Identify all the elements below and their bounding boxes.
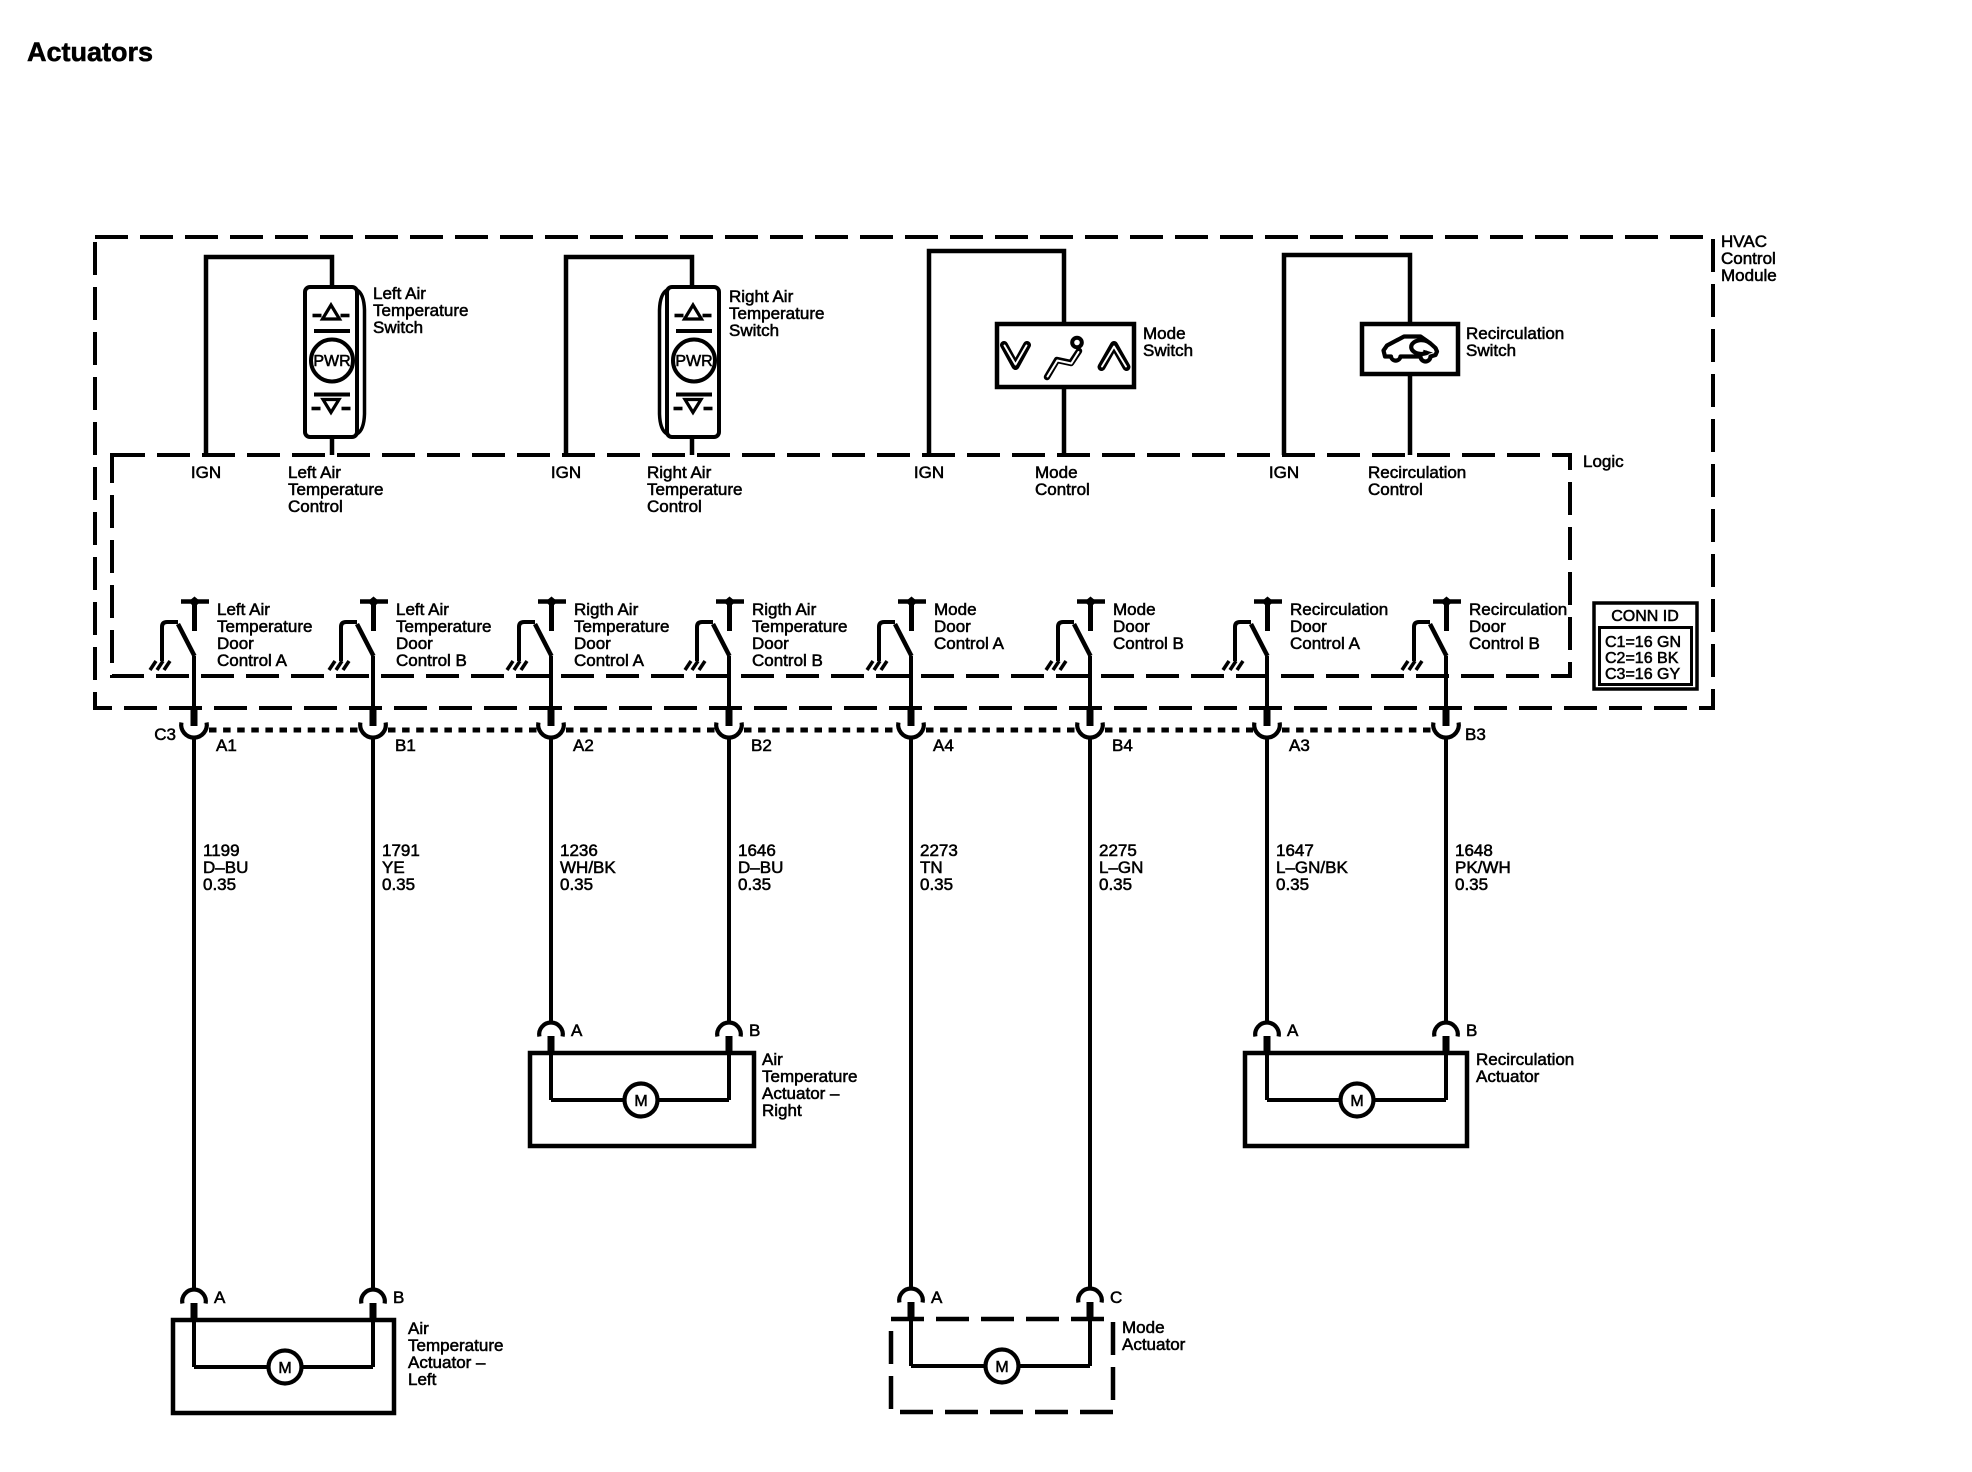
switch S2 Right Air Temperature Switch body <box>660 287 720 437</box>
svg-text:A: A <box>214 1288 226 1307</box>
connector bump pin A of Air Temperature Actuator Left <box>182 1290 206 1320</box>
ground for Q8 <box>1402 661 1422 670</box>
switch S1 Left Air Temperature Switch PWR button <box>311 340 353 382</box>
svg-text:A: A <box>931 1288 943 1307</box>
svg-text:Control: Control <box>1035 480 1090 499</box>
wire segment 1646 D–BU <box>727 738 731 1022</box>
driver Q3 Rigth Air Control A <box>519 597 566 662</box>
svg-text:A1: A1 <box>216 736 237 755</box>
S3 icon chevron down <box>1004 345 1027 366</box>
Air Temperature Actuator Left box <box>173 1320 394 1413</box>
svg-text:A4: A4 <box>933 736 954 755</box>
svg-text:A3: A3 <box>1289 736 1310 755</box>
wire segment 2273 TN <box>909 738 913 1288</box>
svg-text:0.35: 0.35 <box>203 875 236 894</box>
svg-text:Control A: Control A <box>934 634 1005 653</box>
svg-text:B2: B2 <box>751 736 772 755</box>
driver Q4 Rigth Air Control B <box>697 597 744 662</box>
svg-text:0.35: 0.35 <box>382 875 415 894</box>
wire inside Air Temperature Actuator Left pin B <box>371 1320 375 1367</box>
wire segment 1236 WH/BK <box>549 738 553 1022</box>
svg-text:IGN: IGN <box>1269 463 1299 482</box>
wire S4 output pigtail <box>1408 374 1413 455</box>
connector pin A1 cup <box>181 723 207 738</box>
svg-text:PWR: PWR <box>675 353 712 370</box>
wire IGN feed to Right Air Temperature Switch <box>566 257 692 455</box>
wire inside Recirculation Actuator pin B <box>1444 1053 1448 1100</box>
svg-text:Control A: Control A <box>574 651 645 670</box>
connector bump pin A of Mode Actuator <box>899 1289 923 1319</box>
svg-text:M: M <box>995 1359 1008 1376</box>
wire S3 output pigtail <box>1062 387 1067 455</box>
S3 icon seated person <box>1047 338 1082 377</box>
svg-text:A: A <box>571 1021 583 1040</box>
svg-text:0.35: 0.35 <box>1455 875 1488 894</box>
svg-text:Control B: Control B <box>1469 634 1540 653</box>
svg-text:Control B: Control B <box>396 651 467 670</box>
svg-text:A2: A2 <box>573 736 594 755</box>
svg-text:Actuator: Actuator <box>1122 1335 1186 1354</box>
Logic block <box>112 455 1570 676</box>
wire Q4 output down to connector <box>727 656 731 726</box>
svg-text:Control B: Control B <box>752 651 823 670</box>
wire inside Recirculation Actuator pin A <box>1265 1053 1269 1100</box>
svg-text:0.35: 0.35 <box>1276 875 1309 894</box>
wire Q5 output down to connector <box>909 656 913 726</box>
svg-text:0.35: 0.35 <box>560 875 593 894</box>
CONN ID table <box>1594 603 1697 689</box>
wire inside Air Temperature Actuator Left pin A <box>192 1320 196 1367</box>
wire motor link in Mode Actuator <box>911 1364 1090 1368</box>
motor M of Recirculation Actuator <box>1341 1084 1374 1117</box>
svg-text:Left: Left <box>408 1370 437 1389</box>
svg-text:B: B <box>393 1288 404 1307</box>
ground for Q3 <box>507 661 527 670</box>
svg-text:A: A <box>1287 1021 1299 1040</box>
svg-text:B3: B3 <box>1465 725 1486 744</box>
ground for Q6 <box>1046 661 1066 670</box>
switch S2 Right Air Temperature Switch up arrow <box>675 305 713 331</box>
wire Q8 output down to connector <box>1444 656 1448 726</box>
connector pin B1 cup <box>360 723 386 738</box>
driver Q6 Mode Control B <box>1058 597 1105 662</box>
svg-text:PWR: PWR <box>313 353 350 370</box>
svg-text:Module: Module <box>1721 266 1777 285</box>
wire Q7 output down to connector <box>1265 656 1269 726</box>
connector pin B4 cup <box>1077 723 1103 738</box>
svg-text:IGN: IGN <box>551 463 581 482</box>
driver Q8 Recirculation Control B <box>1414 597 1461 662</box>
svg-text:Actuators: Actuators <box>27 37 153 67</box>
svg-text:C: C <box>1110 1288 1122 1307</box>
switch S1 Left Air Temperature Switch body <box>305 287 365 437</box>
connector bump pin A of Recirculation Actuator <box>1255 1023 1279 1053</box>
driver Q7 Recirculation Control A <box>1235 597 1282 662</box>
svg-text:B1: B1 <box>395 736 416 755</box>
ground for Q7 <box>1223 661 1243 670</box>
svg-text:Switch: Switch <box>729 321 779 340</box>
switch S2 Right Air Temperature Switch down arrow <box>674 395 713 413</box>
svg-text:Switch: Switch <box>1466 341 1516 360</box>
wire segment 1791 YE <box>371 738 375 1288</box>
wire inside Air Temperature Actuator Right pin A <box>549 1053 553 1100</box>
switch S3 Mode Switch body <box>997 324 1134 387</box>
ground for Q4 <box>685 661 705 670</box>
switch S2 Right Air Temperature Switch PWR button <box>673 340 715 382</box>
Recirculation Actuator box <box>1245 1053 1467 1146</box>
switch S1 Left Air Temperature Switch down arrow <box>312 395 351 413</box>
wire segment 2275 L–GN <box>1088 738 1092 1288</box>
svg-text:Control: Control <box>647 497 702 516</box>
connector pin A2 cup <box>538 723 564 738</box>
connector bump pin B of Recirculation Actuator <box>1434 1023 1458 1053</box>
wire segment 1647 L–GN/BK <box>1265 738 1269 1022</box>
svg-text:C3: C3 <box>154 725 176 744</box>
svg-text:Control A: Control A <box>1290 634 1361 653</box>
driver Q2 Left Air Control B <box>341 597 388 662</box>
svg-text:Control B: Control B <box>1113 634 1184 653</box>
svg-text:B: B <box>749 1021 760 1040</box>
wire Q6 output down to connector <box>1088 656 1092 726</box>
motor M of Air Temperature Actuator Left <box>269 1351 302 1384</box>
wire inside Mode Actuator pin A <box>909 1319 913 1366</box>
svg-text:0.35: 0.35 <box>920 875 953 894</box>
switch S1 Left Air Temperature Switch up arrow <box>313 305 351 331</box>
connector bump pin C of Mode Actuator <box>1078 1289 1102 1319</box>
svg-text:0.35: 0.35 <box>738 875 771 894</box>
svg-text:Control: Control <box>288 497 343 516</box>
driver Q1 Left Air Control A <box>162 597 209 662</box>
S4 car icon <box>1384 337 1438 362</box>
Mode Actuator box <box>891 1319 1113 1412</box>
ground for Q5 <box>867 661 887 670</box>
wire motor link in Air Temperature Actuator Right <box>551 1098 729 1102</box>
S3 icon chevron up <box>1102 345 1127 367</box>
motor M of Mode Actuator <box>986 1350 1019 1383</box>
svg-text:Switch: Switch <box>373 318 423 337</box>
connector pin A4 cup <box>898 723 924 738</box>
Air Temperature Actuator Right box <box>530 1053 754 1146</box>
svg-text:0.35: 0.35 <box>1099 875 1132 894</box>
svg-text:Actuator: Actuator <box>1476 1067 1540 1086</box>
wire Q1 output down to connector <box>192 656 196 726</box>
wire IGN feed to Mode Switch <box>929 251 1064 455</box>
connector bump pin B of Air Temperature Actuator Right <box>717 1023 741 1053</box>
svg-text:Right: Right <box>762 1101 802 1120</box>
wire inside Air Temperature Actuator Right pin B <box>727 1053 731 1100</box>
switch S4 Recirculation Switch body <box>1362 324 1458 374</box>
svg-text:C1=16 GN: C1=16 GN <box>1605 634 1681 651</box>
wire IGN feed to Left Air Temperature Switch <box>206 257 332 455</box>
connector pin B2 cup <box>716 723 742 738</box>
wire Q3 output down to connector <box>549 656 553 726</box>
wire Q2 output down to connector <box>371 656 375 726</box>
svg-text:IGN: IGN <box>914 463 944 482</box>
svg-text:M: M <box>1350 1093 1363 1110</box>
svg-text:IGN: IGN <box>191 463 221 482</box>
svg-text:Logic: Logic <box>1583 452 1624 471</box>
svg-text:CONN ID: CONN ID <box>1611 608 1679 625</box>
svg-text:C2=16 BK: C2=16 BK <box>1605 650 1679 667</box>
wire inside Mode Actuator pin C <box>1088 1319 1092 1366</box>
wire IGN feed to Recirculation Switch <box>1284 255 1410 455</box>
wire segment 1648 PK/WH <box>1444 738 1448 1022</box>
motor M of Air Temperature Actuator Right <box>625 1084 658 1117</box>
svg-text:M: M <box>634 1093 647 1110</box>
connector bump pin B of Air Temperature Actuator Left <box>361 1290 385 1320</box>
connector bump pin A of Air Temperature Actuator Right <box>539 1023 563 1053</box>
wire segment 1199 D–BU <box>192 738 196 1288</box>
svg-text:Switch: Switch <box>1143 341 1193 360</box>
wire S2 output pigtail <box>690 437 695 455</box>
svg-text:Control: Control <box>1368 480 1423 499</box>
HVAC Control Module box U1 <box>95 237 1713 708</box>
ground for Q1 <box>150 661 170 670</box>
svg-text:B: B <box>1466 1021 1477 1040</box>
svg-text:M: M <box>278 1360 291 1377</box>
ground for Q2 <box>329 661 349 670</box>
svg-text:B4: B4 <box>1112 736 1133 755</box>
wire S1 output pigtail <box>330 437 335 455</box>
wire motor link in Air Temperature Actuator Left <box>194 1365 373 1369</box>
svg-text:C3=16 GY: C3=16 GY <box>1605 666 1680 683</box>
driver Q5 Mode Control A <box>879 597 926 662</box>
connector pin B3 cup <box>1433 723 1459 738</box>
svg-text:Control A: Control A <box>217 651 288 670</box>
connector C3 dotted interface line <box>209 728 1432 733</box>
wire motor link in Recirculation Actuator <box>1267 1098 1446 1102</box>
connector pin A3 cup <box>1254 723 1280 738</box>
